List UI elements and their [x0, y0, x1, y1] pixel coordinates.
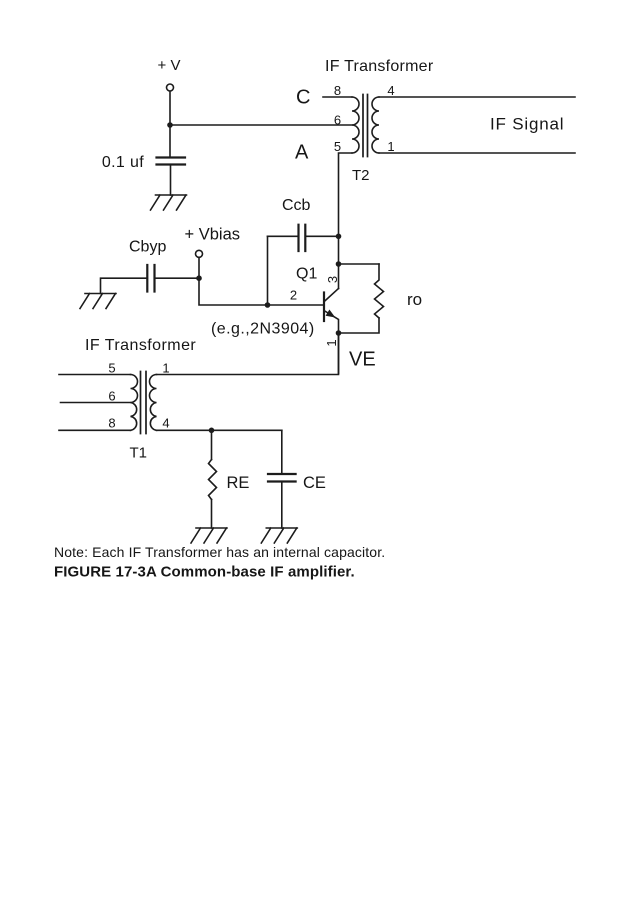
label IF Transformer (T2) — [325, 58, 434, 75]
ground (left of Cbyp) — [80, 294, 116, 309]
svg-text:Ccb: Ccb — [282, 197, 311, 214]
pin 1 label T1 — [162, 361, 169, 376]
svg-text:CE: CE — [303, 474, 326, 492]
svg-text:T2: T2 — [352, 167, 370, 184]
svg-text:Cbyp: Cbyp — [129, 239, 166, 256]
wire T2 pin 5 stub — [339, 153, 353, 289]
wire T2 pin 4 to IF signal out top — [379, 96, 575, 98]
wire T1 pin 1 to Q1 emitter (VE) — [157, 333, 339, 375]
wire RE to ground — [211, 500, 213, 529]
transformer T2 core — [363, 95, 368, 157]
node +Vbias label — [185, 226, 241, 244]
svg-text:3: 3 — [325, 276, 340, 283]
svg-text:0.1 uf: 0.1 uf — [102, 154, 144, 171]
pin 4 label T1 — [162, 416, 169, 431]
svg-text:VE: VE — [349, 349, 376, 371]
svg-text:A: A — [295, 142, 309, 164]
wire T2 pin 8 stub — [323, 96, 352, 98]
wire CE to ground — [281, 482, 283, 529]
svg-text:IF Transformer: IF Transformer — [325, 58, 434, 75]
note text — [54, 544, 385, 560]
resistor RE — [209, 460, 217, 500]
transformer T1 primary winding — [131, 375, 138, 431]
transistor Q1 collector lead — [325, 289, 339, 302]
wire Ccb left lead — [268, 235, 299, 237]
pin 3 label Q1 (rotated) — [325, 276, 340, 283]
svg-text:+ V: + V — [158, 57, 181, 74]
wire T1 pin4 run to CE — [281, 430, 283, 474]
wire collector junction to ro top — [339, 263, 380, 265]
label CE — [303, 474, 326, 492]
svg-text:6: 6 — [334, 113, 341, 128]
value label 0.1 uf — [102, 154, 144, 171]
figure caption — [54, 564, 355, 581]
wire Ccb right lead — [305, 235, 338, 237]
svg-text:C: C — [296, 87, 310, 109]
node +V label — [158, 57, 181, 74]
pin 8 label T1 — [108, 416, 115, 431]
transistor Q1 emitter lead — [325, 311, 339, 374]
capacitor CE — [268, 474, 296, 482]
wire +V junction to T2 pin 6 — [170, 124, 352, 126]
label T1 — [130, 445, 148, 462]
svg-text:Q1: Q1 — [296, 266, 317, 283]
svg-text:T1: T1 — [130, 445, 148, 462]
svg-text:(e.g.,2N3904): (e.g.,2N3904) — [211, 321, 315, 338]
wire T1 pin 5 stub — [59, 374, 131, 376]
label IF Signal — [490, 115, 564, 134]
node A — [295, 142, 309, 164]
wire junction to RE top — [211, 430, 213, 459]
wire Vbias junction to Q1 base — [199, 278, 324, 305]
wire Cbyp to Vbias junction — [155, 277, 200, 279]
label Cbyp — [129, 239, 166, 256]
svg-text:FIGURE 17-3A Common-base IF am: FIGURE 17-3A Common-base IF amplifier. — [54, 564, 355, 581]
transformer T2 secondary winding — [372, 97, 379, 153]
capacitor Cbyp — [147, 265, 154, 292]
transformer T1 core — [141, 372, 147, 434]
svg-text:IF Signal: IF Signal — [490, 115, 564, 134]
wire T1 pin 8 stub — [59, 429, 131, 431]
pin 8 label T2 — [334, 83, 341, 98]
svg-text:Note: Each IF Transformer has: Note: Each IF Transformer has an interna… — [54, 544, 385, 560]
pin 6 label T2 — [334, 113, 341, 128]
transformer T2 primary winding — [352, 97, 359, 153]
resistor ro — [375, 264, 384, 318]
node junction collector / ro — [336, 261, 342, 267]
wire capacitor to ground — [170, 165, 172, 196]
wire ro bottom to emitter junction — [339, 318, 380, 333]
node junction base / Ccb — [265, 302, 271, 308]
pin 1 label T2 — [387, 139, 394, 154]
wire T1 pin 4 to RE/CE — [157, 429, 282, 431]
svg-text:8: 8 — [108, 416, 115, 431]
label T2 — [352, 167, 370, 184]
pin 1 label Q1 (rotated) — [324, 339, 339, 346]
node VE label — [349, 349, 376, 371]
node C — [296, 87, 310, 109]
value label (e.g.,2N3904) — [211, 321, 315, 338]
label ro — [407, 290, 422, 309]
terminal +V — [167, 84, 174, 91]
svg-text:+ Vbias: + Vbias — [185, 226, 241, 244]
transistor Q1 emitter arrow — [326, 310, 336, 318]
node junction +V / 0.1uf — [167, 122, 173, 128]
transformer T1 secondary winding — [150, 375, 157, 431]
svg-text:5: 5 — [108, 361, 115, 376]
svg-text:RE: RE — [227, 474, 250, 492]
svg-text:8: 8 — [334, 83, 341, 98]
node junction Vbias / Cbyp — [196, 275, 202, 281]
label IF Transformer (T1) — [85, 337, 196, 354]
svg-text:2: 2 — [290, 288, 297, 303]
ground (under CE) — [261, 528, 297, 543]
svg-text:5: 5 — [334, 139, 341, 154]
terminal +Vbias — [196, 250, 203, 257]
capacitor 0.1 uf — [157, 158, 186, 165]
svg-text:1: 1 — [324, 339, 339, 346]
svg-text:4: 4 — [387, 83, 394, 98]
wire +Vbias to junction — [198, 258, 200, 278]
wire T2 pin 1 to IF signal out bottom — [379, 152, 575, 154]
svg-text:6: 6 — [108, 389, 115, 404]
node junction T1 pin4 / RE — [209, 428, 215, 434]
pin 5 label T1 — [108, 361, 115, 376]
capacitor Ccb — [299, 225, 306, 251]
pin 6 label T1 — [108, 389, 115, 404]
svg-text:1: 1 — [162, 361, 169, 376]
label RE — [227, 474, 250, 492]
wire Ccb to base node — [267, 236, 269, 305]
svg-text:IF Transformer: IF Transformer — [85, 337, 196, 354]
wire +V down to capacitor — [169, 92, 171, 158]
node junction Ccb / collector line — [336, 234, 342, 240]
wire ground to Cbyp — [101, 278, 148, 293]
svg-text:ro: ro — [407, 290, 422, 309]
transistor Q1 base bar — [323, 293, 325, 322]
svg-text:4: 4 — [162, 416, 169, 431]
pin 5 label T2 — [334, 139, 341, 154]
wire T1 pin 6 stub — [61, 402, 131, 404]
pin 4 label T2 — [387, 83, 394, 98]
pin 2 label Q1 — [290, 288, 297, 303]
label Ccb — [282, 197, 311, 214]
label Q1 — [296, 266, 317, 283]
ground (under RE) — [191, 528, 227, 543]
node junction emitter / ro — [336, 330, 342, 336]
svg-text:1: 1 — [387, 139, 394, 154]
ground (under 0.1 uf) — [151, 195, 187, 210]
